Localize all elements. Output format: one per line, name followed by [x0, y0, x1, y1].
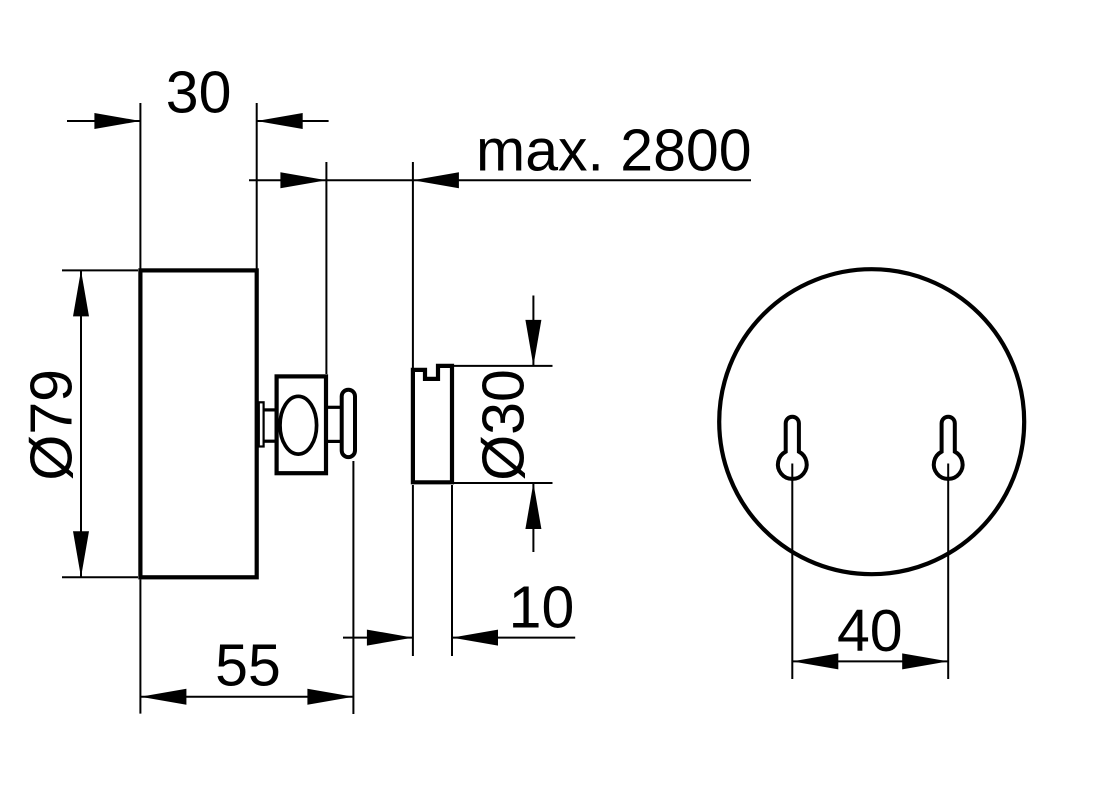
arrow left-pointing at right ext — [257, 113, 303, 129]
svg-text:Ø79: Ø79 — [19, 369, 85, 481]
dim line vertical — [80, 270, 82, 577]
arrow right at right end — [307, 689, 353, 705]
arrow right-pointing at left ext — [367, 630, 413, 646]
svg-text:max. 2800: max. 2800 — [476, 118, 752, 184]
ext line left — [139, 579, 141, 713]
ext line left — [139, 103, 141, 270]
dim line right tail — [257, 120, 329, 122]
keyhole right — [934, 417, 963, 479]
mid segment — [326, 179, 413, 181]
dim line top segment — [532, 296, 534, 366]
arrow right-pointing at left ext — [94, 113, 140, 129]
ext line right — [451, 485, 453, 656]
ext line 1 — [325, 162, 327, 374]
left neck top line — [263, 408, 277, 411]
grip ellipse — [280, 396, 317, 454]
right neck bottom line — [326, 440, 341, 443]
center line left — [791, 464, 793, 680]
arrow left at left end — [792, 653, 838, 669]
dim line — [792, 660, 948, 662]
right neck top line — [326, 406, 341, 409]
arrow right at right end — [902, 653, 948, 669]
arrow left at left end — [140, 689, 186, 705]
arrow down at bottom — [73, 531, 89, 577]
dim line left tail — [67, 120, 140, 122]
svg-text:Ø30: Ø30 — [471, 369, 537, 481]
ext line 2 — [412, 162, 414, 369]
left neck bottom line — [263, 440, 277, 443]
arrow left-pointing at ext2 with long tail — [413, 172, 459, 188]
dim line — [140, 696, 353, 698]
arrow up at top — [73, 270, 89, 316]
ext line bottom — [62, 576, 138, 578]
knob stadium — [342, 390, 355, 457]
svg-text:55: 55 — [215, 633, 281, 699]
center line right — [947, 464, 949, 680]
svg-text:40: 40 — [837, 598, 903, 664]
canopy circle — [719, 269, 1024, 574]
arrow up at bottom ext — [525, 483, 541, 529]
ext line top — [62, 269, 138, 271]
keyhole left — [778, 417, 807, 479]
flange plate — [259, 402, 264, 446]
svg-text:10: 10 — [509, 574, 575, 640]
ext line right — [256, 103, 258, 270]
left tail — [343, 637, 413, 639]
left tail — [249, 179, 326, 181]
right tail — [452, 637, 575, 639]
arrow left-pointing at right ext — [452, 630, 498, 646]
svg-text:30: 30 — [166, 60, 232, 126]
grip body rect — [277, 376, 326, 473]
ext line bottom — [452, 482, 553, 484]
ext line top — [452, 365, 553, 367]
ext line left — [412, 485, 414, 656]
arrow down at top ext — [525, 320, 541, 366]
arrow right-pointing at ext1 — [280, 172, 326, 188]
cylinder body rect — [140, 270, 256, 577]
ext line right — [352, 461, 354, 714]
dim line bottom segment — [532, 483, 534, 552]
